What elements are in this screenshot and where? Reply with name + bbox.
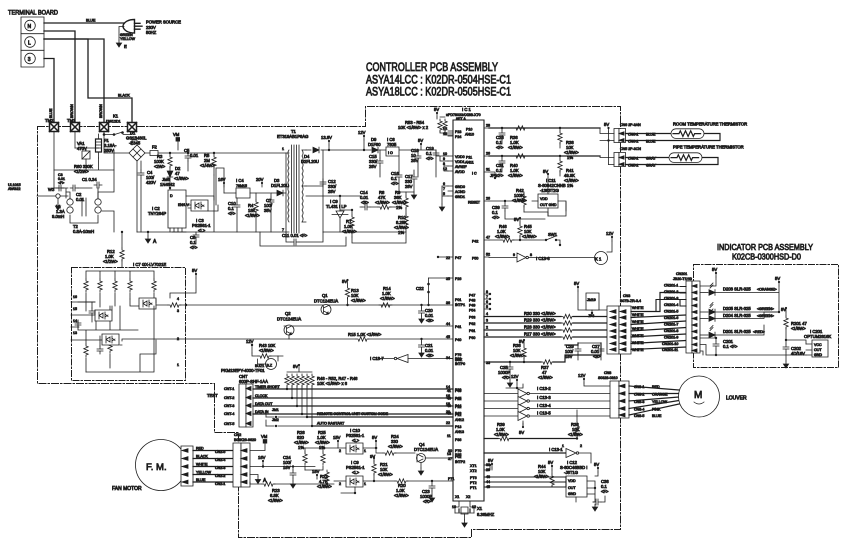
svg-text:AN13: AN13 [455,430,464,434]
svg-text:P71: P71 [448,477,454,481]
svg-text:16V: 16V [312,469,320,474]
svg-text:VDD0: VDD0 [455,155,465,159]
5V flag CN3 [574,281,607,310]
wire: N to plug (BLUE) [44,22,124,24]
svg-text:X1: X1 [477,506,483,511]
resistor R38 10K [558,127,579,160]
capacitor C15 330/26V [369,150,383,177]
svg-text:M: M [694,390,702,401]
resistors R53-R54 10K x2 [398,117,453,135]
title INDICATOR PCB ASSEMBLY [717,242,813,262]
svg-text:VDD1: VDD1 [455,160,465,164]
svg-text:1: 1 [486,333,488,337]
wire+resistor R29 330 [484,318,607,326]
svg-text:31: 31 [486,168,490,172]
svg-text:50HZ: 50HZ [146,30,157,35]
optocoupler IC9 PS2561-1 [334,460,395,494]
svg-text:12V: 12V [578,373,586,378]
transistor Q1 DTC124EUA [314,293,338,315]
svg-text:YELLOW: YELLOW [120,37,136,41]
wires CN3 to CN201 [631,293,686,350]
pipe thermistor [626,145,744,165]
svg-text:<F>: <F> [391,181,399,186]
svg-text:<2W>: <2W> [154,164,166,169]
inverter IC13-6 [489,253,595,262]
svg-text:CNT-2: CNT-2 [224,396,234,400]
svg-text:GND0: GND0 [455,185,465,189]
svg-text:-1383T2G: -1383T2G [540,188,559,193]
svg-text:5V: 5V [192,268,197,273]
svg-text:ACND: ACND [455,190,466,194]
svg-text:49: 49 [447,404,451,408]
IC1 left pins top [443,127,468,199]
fan motor wires to CN2 [193,451,233,483]
svg-text:TEST: TEST [207,393,218,398]
svg-text:OUT: OUT [568,486,576,490]
optocoupler IC10 P32561-1 [338,428,377,454]
capacitor C20 0.01 [419,304,435,323]
junction dots on CNT bus [286,388,313,427]
svg-text:7805: 7805 [387,142,397,147]
crystal X1 8.38MHZ [452,495,495,527]
svg-text:CN201-6: CN201-6 [664,316,678,320]
svg-text:ASYA14LCC : K02DR-0504HSE-C1: ASYA14LCC : K02DR-0504HSE-C1 [366,75,511,87]
svg-text:TM2: TM2 [45,118,54,123]
resistor R10 8.25K [394,214,409,235]
svg-text:<1/8W>: <1/8W> [394,493,409,498]
svg-text:I C13-2: I C13-2 [537,386,551,391]
title CONTROLLER PCB ASSEMBLY [366,62,511,99]
indicator bottom rail [700,340,806,356]
svg-text:-J8T1G: -J8T1G [564,470,578,475]
svg-text:9.0mH: 9.0mH [52,214,64,219]
wire: 3 to TM2 [44,59,54,123]
svg-text:P47: P47 [455,256,461,260]
svg-text:12V: 12V [246,339,254,344]
wire: IC7 input left [71,299,168,340]
wire: TM2 down to input filter [53,132,55,189]
svg-text:5V: 5V [372,435,377,440]
svg-text:D: D [170,194,173,198]
svg-text:INTP1: INTP1 [455,303,465,307]
capacitor C14 0.01 [360,190,378,210]
svg-text:DATA IN: DATA IN [255,410,269,414]
svg-text:<GREEN>: <GREEN> [757,307,774,311]
capacitor C23 1000P [420,480,435,504]
svg-text:1%: 1% [319,445,325,450]
svg-text:<F>: <F> [58,181,64,185]
svg-text:F2: F2 [152,145,158,150]
ground E at plug [116,27,135,50]
svg-text:AVDD: AVDD [455,170,465,174]
svg-text:TERMINAL BOARD: TERMINAL BOARD [8,10,58,17]
svg-text:B03K26-9620: B03K26-9620 [234,438,256,442]
svg-text:BROWN: BROWN [99,104,103,118]
ground A [145,231,157,245]
16V flag fan [250,455,266,468]
svg-text:B.Z: B.Z [267,364,273,368]
label auto restart [312,422,453,427]
svg-text:CN201-7: CN201-7 [664,323,678,327]
capacitor C27 0.01 [578,343,604,360]
svg-text:OPTUM2616K: OPTUM2616K [804,334,831,339]
svg-text:5: 5 [486,305,488,309]
svg-text:9: 9 [443,157,445,161]
svg-text:CN201-3: CN201-3 [664,297,678,301]
svg-text:1: 1 [364,449,366,453]
svg-text:PIPE TEMPERATURE THERMISTOR: PIPE TEMPERATURE THERMISTOR [673,145,744,150]
svg-text:7: 7 [443,187,445,191]
wire: opto feedback long [216,168,224,205]
svg-text:5V: 5V [574,281,579,286]
svg-text:8.38MHZ: 8.38MHZ [477,512,495,517]
svg-text:P50: P50 [472,257,478,261]
resistor R42 100K [512,188,527,212]
svg-text:8: 8 [486,290,488,294]
capacitor C19 0.1 [426,146,439,177]
svg-text:<1/2W>: <1/2W> [103,259,118,264]
label W3 UL1015 AWG22 [8,183,68,198]
svg-text:13.8V: 13.8V [321,135,332,140]
resistor R46 1.0K [495,224,514,242]
resistor R14 1.0K [379,286,395,307]
CN8 pin labels [634,385,668,418]
svg-text:CONTROLLER PCB ASSEMBLY: CONTROLLER PCB ASSEMBLY [366,62,498,74]
svg-text:K 1: K 1 [595,257,602,262]
capacitor C5 0.01 [184,148,199,171]
svg-text:DTC124EUA: DTC124EUA [314,299,338,304]
5V flag IC10 [372,435,377,449]
12V flag secondary [358,130,366,151]
svg-text:5V: 5V [548,460,553,465]
svg-text:DATA OUT: DATA OUT [255,402,273,406]
IC1 left mid pin labels [446,385,464,434]
svg-text:CN201-5: CN201-5 [664,310,678,314]
svg-text:13: 13 [73,331,77,335]
svg-text:WHITE: WHITE [632,313,644,317]
svg-text:AVREF: AVREF [455,165,468,169]
wire: AN11 row to CN5 [489,155,600,157]
svg-text:P10: P10 [466,128,472,132]
capacitor C8 0.1 [190,232,199,250]
svg-text:2: 2 [339,482,341,486]
svg-text:CN2-4: CN2-4 [215,458,225,462]
IC7 pin numbers [73,295,179,367]
capacitor C25 1000P [498,361,513,387]
diode D3 D1FL20U [271,178,289,196]
resistor R23 6.8K [250,482,334,503]
svg-text:TM1: TM1 [67,118,76,123]
jumper JM6 1N4842 [160,177,175,190]
svg-text:PT6: PT6 [470,476,477,480]
svg-text:26V: 26V [369,164,377,169]
svg-text:BLUE: BLUE [49,108,53,118]
svg-text:REMOTE CONTROL UNIT CUSTOM COD: REMOTE CONTROL UNIT CUSTOM CODE [317,412,389,416]
svg-text:CN2-3: CN2-3 [215,466,225,470]
5V flag IC7 [170,268,197,298]
svg-text:7: 7 [282,228,284,232]
svg-text:TIMER SHORT: TIMER SHORT [255,385,280,389]
svg-text:0.01: 0.01 [190,153,199,158]
svg-text:DTC124EUA: DTC124EUA [414,447,438,452]
terminal L [25,37,36,48]
svg-text:P36: P36 [455,438,461,442]
13.8V flag [321,135,332,151]
wire: L to TM1 [44,31,75,123]
secondary mid rail 16V [306,179,323,186]
svg-text:5V: 5V [418,138,423,143]
svg-text:R28 330 <1/8W>: R28 330 <1/8W> [524,325,556,330]
svg-text:5V: 5V [781,307,786,312]
svg-text:CN201: CN201 [676,272,687,276]
svg-text:<1/8W>: <1/8W> [245,213,260,218]
svg-text:CN201-1: CN201-1 [664,284,678,288]
svg-text:20V: 20V [256,177,264,182]
fan motor F.M. [112,440,187,493]
resistor R36b 10K [568,410,583,440]
svg-text:CN201-2: CN201-2 [664,290,678,294]
svg-text:P63: P63 [469,316,475,320]
svg-text:P48: P48 [469,299,475,303]
svg-text:WHITE: WHITE [632,348,644,352]
IC7 relay-driver dash-dot box [72,268,186,381]
svg-text:35V: 35V [264,208,272,213]
louver motor M [679,376,747,417]
svg-text:P49: P49 [469,304,475,308]
svg-text:5V: 5V [775,276,780,281]
svg-text:<1/8W>: <1/8W> [494,432,509,437]
resistor R43 10K [252,343,278,361]
svg-text:CN5 2P-3CN: CN5 2P-3CN [620,147,641,151]
svg-text:F. M.: F. M. [146,462,167,473]
row P33 INTP0 [455,343,601,366]
svg-text:<F>: <F> [496,145,504,150]
svg-text:5V: 5V [543,169,548,174]
svg-text:<1/8W>: <1/8W> [495,234,510,239]
svg-text:<ORANGE>: <ORANGE> [757,288,777,292]
LED D205 SLR-325 green [700,303,780,315]
svg-text:N: N [28,24,32,30]
5V flag indicator right [775,276,780,292]
svg-text:JM2: JM2 [272,418,279,422]
svg-text:I C13-6: I C13-6 [536,256,550,261]
main HV rail [137,153,286,232]
wire+resistor R28 330 [484,325,607,333]
svg-text:P45: P45 [455,397,461,401]
svg-text:5V: 5V [342,279,347,284]
svg-text:40: 40 [447,397,451,401]
svg-text:47: 47 [486,236,490,240]
optocoupler IC3 PS2561-1 [191,200,211,233]
svg-text:<1/8W>: <1/8W> [508,173,523,178]
svg-text:CN2: CN2 [234,433,241,437]
svg-text:TNY264P: TNY264P [148,211,166,216]
LED D201 SLR-325 red [700,325,765,338]
svg-text:R27 330 <1/8W>: R27 330 <1/8W> [524,332,556,337]
svg-text:X1: X1 [455,495,459,499]
louver motor wires [629,386,679,415]
svg-text:12V: 12V [606,231,614,236]
svg-text:P11: P11 [466,156,472,160]
svg-text:<L>: <L> [352,438,360,443]
svg-text:BLUE: BLUE [86,19,96,23]
svg-text:2: 2 [339,449,341,453]
inverter IC13-4 [447,403,610,413]
indicator PCB dash-dot box [694,265,839,368]
svg-text:1N4842: 1N4842 [160,182,175,187]
svg-text:9: 9 [513,253,515,257]
wire: feedback loop lower [260,232,406,246]
12V flag buzzer [246,339,254,353]
svg-text:P46: P46 [455,389,461,393]
svg-text:I C: I C [472,172,477,176]
svg-text:WHITE: WHITE [632,327,644,331]
svg-text:P23: P23 [455,130,461,134]
svg-text:<1/8W>: <1/8W> [342,229,357,234]
svg-text:<F>: <F> [228,211,236,216]
svg-text:CN201-8: CN201-8 [664,329,678,333]
svg-text:P47: P47 [469,294,475,298]
svg-text:5V: 5V [519,430,524,435]
svg-text:52: 52 [486,253,490,257]
svg-text:3: 3 [28,57,31,63]
svg-text:XT2: XT2 [470,469,477,473]
svg-text:7: 7 [486,295,488,299]
svg-text:PKM13EPY-4000-TF01: PKM13EPY-4000-TF01 [221,368,265,373]
IC1 bottom-left pins [448,449,465,481]
capacitor C4 100/420V [138,161,156,232]
svg-text:BROWN: BROWN [70,104,74,118]
svg-text:13: 13 [447,452,451,456]
svg-text:<F>: <F> [190,245,198,250]
transistor Q4 DTC124EUA [414,442,453,475]
secondary rail to feedback [306,195,360,197]
svg-text:0.1 <F>: 0.1 <F> [723,344,738,349]
svg-text:POWER SOURCE: POWER SOURCE [146,20,181,25]
wire color labels vertical [49,104,103,118]
svg-text:I C4: I C4 [236,178,244,183]
svg-text:BLACK: BLACK [196,455,208,459]
wire: filter grid [54,148,114,198]
5V flag CN6 [604,122,610,165]
12V flag K1 [606,231,614,252]
svg-text:LOUVER: LOUVER [726,396,747,402]
svg-text:<1/8W>: <1/8W> [508,145,523,150]
resistor R45 10K [514,217,537,240]
IC1 right pins rows P47-P54 [469,290,491,313]
capacitor C2 0.01 [70,185,85,202]
relay K1 contact a [100,114,121,132]
svg-text:CN8-5: CN8-5 [634,414,644,418]
transistor Q2 DTC124EUA [277,311,301,339]
svg-text:CNT-4: CNT-4 [224,412,234,416]
svg-text:JP3: JP3 [588,314,594,318]
15V flag IC10 [333,435,341,448]
resistor R24 330 [376,434,415,455]
resistor R4 18K [245,193,260,232]
capacitor C28 0.1 [496,127,505,150]
svg-text:1: 1 [562,444,564,448]
svg-text:OUT GND: OUT GND [540,203,557,207]
svg-text:JM19: JM19 [587,298,596,302]
5V flags IC12 [488,458,599,476]
CN201 pin stubs [656,287,686,312]
switch SW1 [489,232,561,246]
wire: bridge connections [104,132,137,154]
svg-text:WHITE: WHITE [632,341,644,345]
capacitor C11 0.01 [282,232,323,245]
svg-text:DW12D1: DW12D1 [106,120,121,124]
svg-text:Q1: Q1 [322,293,328,298]
svg-text:5V: 5V [514,217,519,222]
resistor R37 47 [538,360,554,380]
svg-text:5V: 5V [594,462,599,467]
transformer T1 ET319AB1P8AG [277,129,308,233]
svg-text:<GREEN>: <GREEN> [757,314,774,318]
svg-text:3: 3 [177,309,179,313]
power plug icon [123,20,142,34]
wire: VDD group to caps [436,150,448,171]
svg-text:<1/8W>: <1/8W> [791,326,806,331]
svg-text:<RED>: <RED> [753,330,765,334]
connector CN3 B07B-ZR-3.4 [607,294,641,354]
svg-text:250V: 250V [104,148,114,153]
svg-text:26: 26 [486,197,490,201]
wire: IC7 out 2 [120,326,453,345]
svg-text:D205 SLR-325: D205 SLR-325 [723,306,751,311]
svg-text:JB20-T1HG: JB20-T1HG [673,277,692,281]
wire: IC2 to IC3 [186,196,218,211]
svg-text:P43: P43 [455,412,461,416]
5V flag indicator left [700,267,717,286]
svg-text:ET319AB1P8AG: ET319AB1P8AG [277,134,308,139]
svg-text:S0328-0310: S0328-0310 [598,376,618,380]
svg-text:<1/8W>: <1/8W> [174,176,189,181]
inverter IC13-3 [447,395,610,406]
svg-text:1%: 1% [396,205,402,210]
svg-text:B07B-ZR-3.4: B07B-ZR-3.4 [620,299,641,303]
inverter IC13-7 [370,355,453,363]
svg-text:AN10: AN10 [465,133,474,137]
connector CN5 2P-3CN [614,147,657,168]
svg-text:<1/8W>: <1/8W> [388,444,403,449]
resistor R44 10K [534,464,560,487]
svg-text:41: 41 [447,389,451,393]
svg-text:26: 26 [486,152,490,156]
jumper JM2 [266,418,312,427]
svg-text:VDD: VDD [540,197,548,201]
signal names on CNT wires [255,385,280,414]
svg-text:6: 6 [486,300,488,304]
capacitor C31 0.1 [496,155,505,178]
svg-text:D1F60: D1F60 [368,142,381,147]
svg-text:<1/8W>: <1/8W> [268,498,283,503]
IC7 internals: resistor bank and wires [75,271,156,372]
svg-text:P26: P26 [455,277,461,281]
resistor R25 1.0K [305,430,338,470]
wire color labels CN3-CN201 [632,306,644,352]
svg-text:WHITE: WHITE [632,306,644,310]
svg-text:INTP2: INTP2 [455,460,465,464]
svg-text:16V: 16V [218,177,226,182]
capacitor C17 330/26V [405,170,417,199]
buzzer BUZ1 [255,359,277,370]
diode D2 47 [167,166,189,183]
svg-text:1%: 1% [398,230,404,235]
svg-text:5V: 5V [712,267,717,272]
resistor R5 2M [200,152,216,175]
svg-text:JP1: JP1 [490,173,498,178]
